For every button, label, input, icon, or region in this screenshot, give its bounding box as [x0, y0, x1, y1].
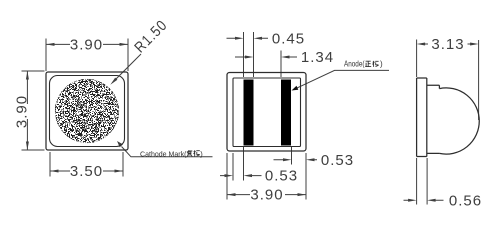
svg-text:): ) — [380, 60, 383, 69]
svg-text:0.56: 0.56 — [449, 192, 482, 209]
svg-text:Anode(: Anode( — [344, 60, 365, 69]
svg-text:0.45: 0.45 — [272, 30, 305, 47]
svg-text:3.50: 3.50 — [70, 163, 103, 180]
svg-text:1.34: 1.34 — [301, 49, 334, 66]
svg-text:0.53: 0.53 — [321, 152, 354, 169]
svg-text:Cathode Mark(: Cathode Mark( — [140, 149, 187, 158]
svg-text:3.90: 3.90 — [70, 37, 103, 54]
svg-text:3.90: 3.90 — [250, 187, 283, 204]
svg-text:3.13: 3.13 — [431, 36, 464, 53]
svg-text:0.53: 0.53 — [265, 168, 298, 185]
svg-text:3.90: 3.90 — [14, 95, 31, 128]
